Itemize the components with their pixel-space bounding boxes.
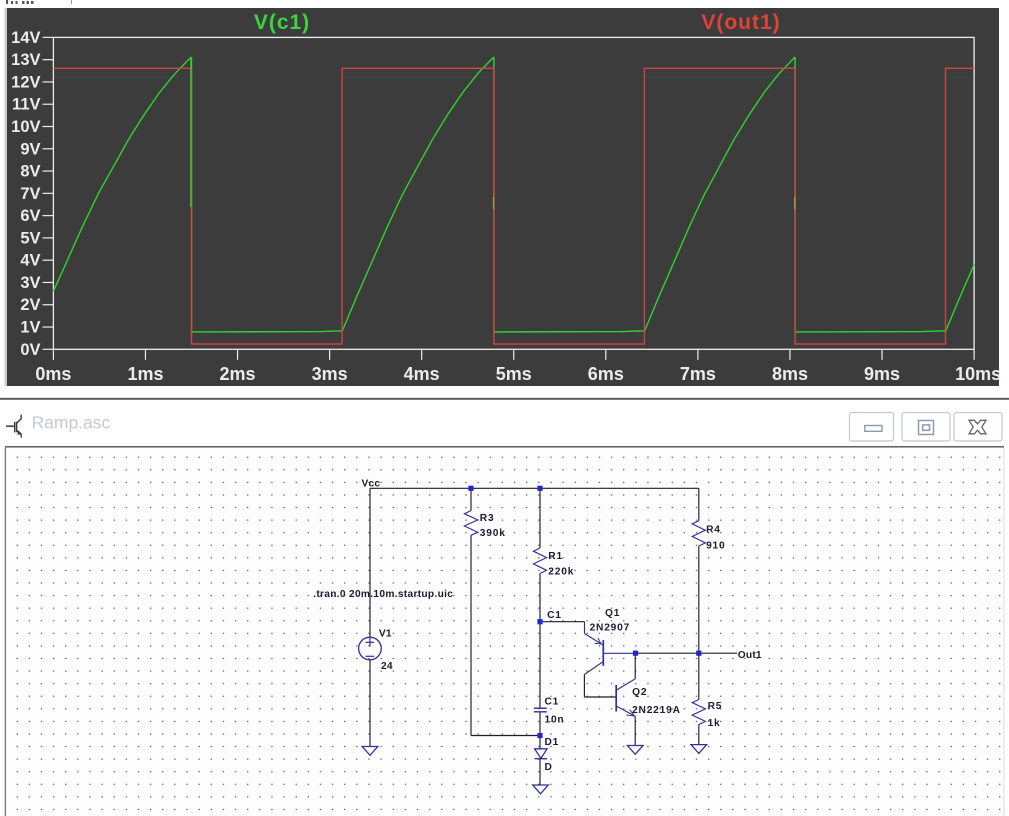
svg-text:6V: 6V [20,207,40,225]
svg-text:V(out1): V(out1) [701,11,780,34]
svg-text:Out1: Out1 [738,650,762,661]
svg-text:C1: C1 [545,696,560,707]
svg-text:2ms: 2ms [220,364,256,384]
svg-text:1V: 1V [20,319,40,337]
svg-text:R4: R4 [706,524,721,535]
svg-text:3V: 3V [20,274,40,292]
svg-text:V(c1): V(c1) [254,11,310,34]
svg-text:11V: 11V [12,96,40,114]
svg-text:2N2907: 2N2907 [590,623,631,634]
svg-text:220k: 220k [548,566,574,577]
svg-text:4V: 4V [20,252,40,270]
svg-text:7V: 7V [20,185,40,203]
svg-text:8V: 8V [20,163,40,181]
svg-text:1k: 1k [708,718,721,729]
svg-text:10ms: 10ms [955,364,1001,384]
svg-text:Vcc: Vcc [362,479,381,490]
svg-text:5ms: 5ms [496,364,532,384]
svg-text:0ms: 0ms [35,364,71,384]
svg-text:24: 24 [381,661,393,672]
svg-text:5V: 5V [20,229,40,247]
svg-text:1ms: 1ms [127,364,163,384]
svg-text:12V: 12V [11,73,40,91]
svg-text:.tran.0 20m.10m.startup.uic: .tran.0 20m.10m.startup.uic [313,589,453,600]
svg-text:D: D [545,762,553,773]
svg-text:R1: R1 [548,551,563,562]
svg-text:Q1: Q1 [605,608,620,619]
svg-text:R5: R5 [708,701,723,712]
svg-text:9ms: 9ms [864,364,900,384]
svg-text:390k: 390k [480,528,506,539]
svg-text:910: 910 [706,540,725,551]
svg-text:2N2219A: 2N2219A [632,705,681,716]
svg-text:6ms: 6ms [588,364,624,384]
svg-text:14V: 14V [11,29,40,47]
svg-text:Ramp.asc: Ramp.asc [32,413,111,433]
svg-text:8ms: 8ms [772,364,808,384]
svg-text:10n: 10n [545,715,565,726]
svg-text:D1: D1 [545,737,560,748]
svg-text:V1: V1 [379,629,392,640]
svg-text:0V: 0V [20,341,40,359]
svg-text:3ms: 3ms [312,364,348,384]
svg-text:R3: R3 [480,513,495,524]
svg-text:4ms: 4ms [404,364,440,384]
svg-text:9V: 9V [20,140,40,158]
svg-text:13V: 13V [11,51,40,69]
svg-text:10V: 10V [11,118,40,136]
svg-text:2V: 2V [20,296,40,314]
svg-text:Q2: Q2 [632,687,647,698]
svg-text:7ms: 7ms [680,364,716,384]
svg-text:C1: C1 [547,610,562,621]
